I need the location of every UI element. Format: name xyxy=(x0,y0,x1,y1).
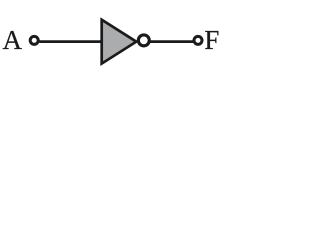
wire: input terminal to inverter input xyxy=(39,40,101,43)
node A label xyxy=(3,27,23,54)
inversion bubble at inverter output xyxy=(138,35,149,46)
wire: bubble to output terminal xyxy=(150,40,194,43)
input terminal circle (node A) xyxy=(30,36,38,44)
node F label xyxy=(204,27,219,54)
output terminal circle (node F) xyxy=(194,36,202,44)
inverter gate U1 (triangle) xyxy=(102,20,137,64)
